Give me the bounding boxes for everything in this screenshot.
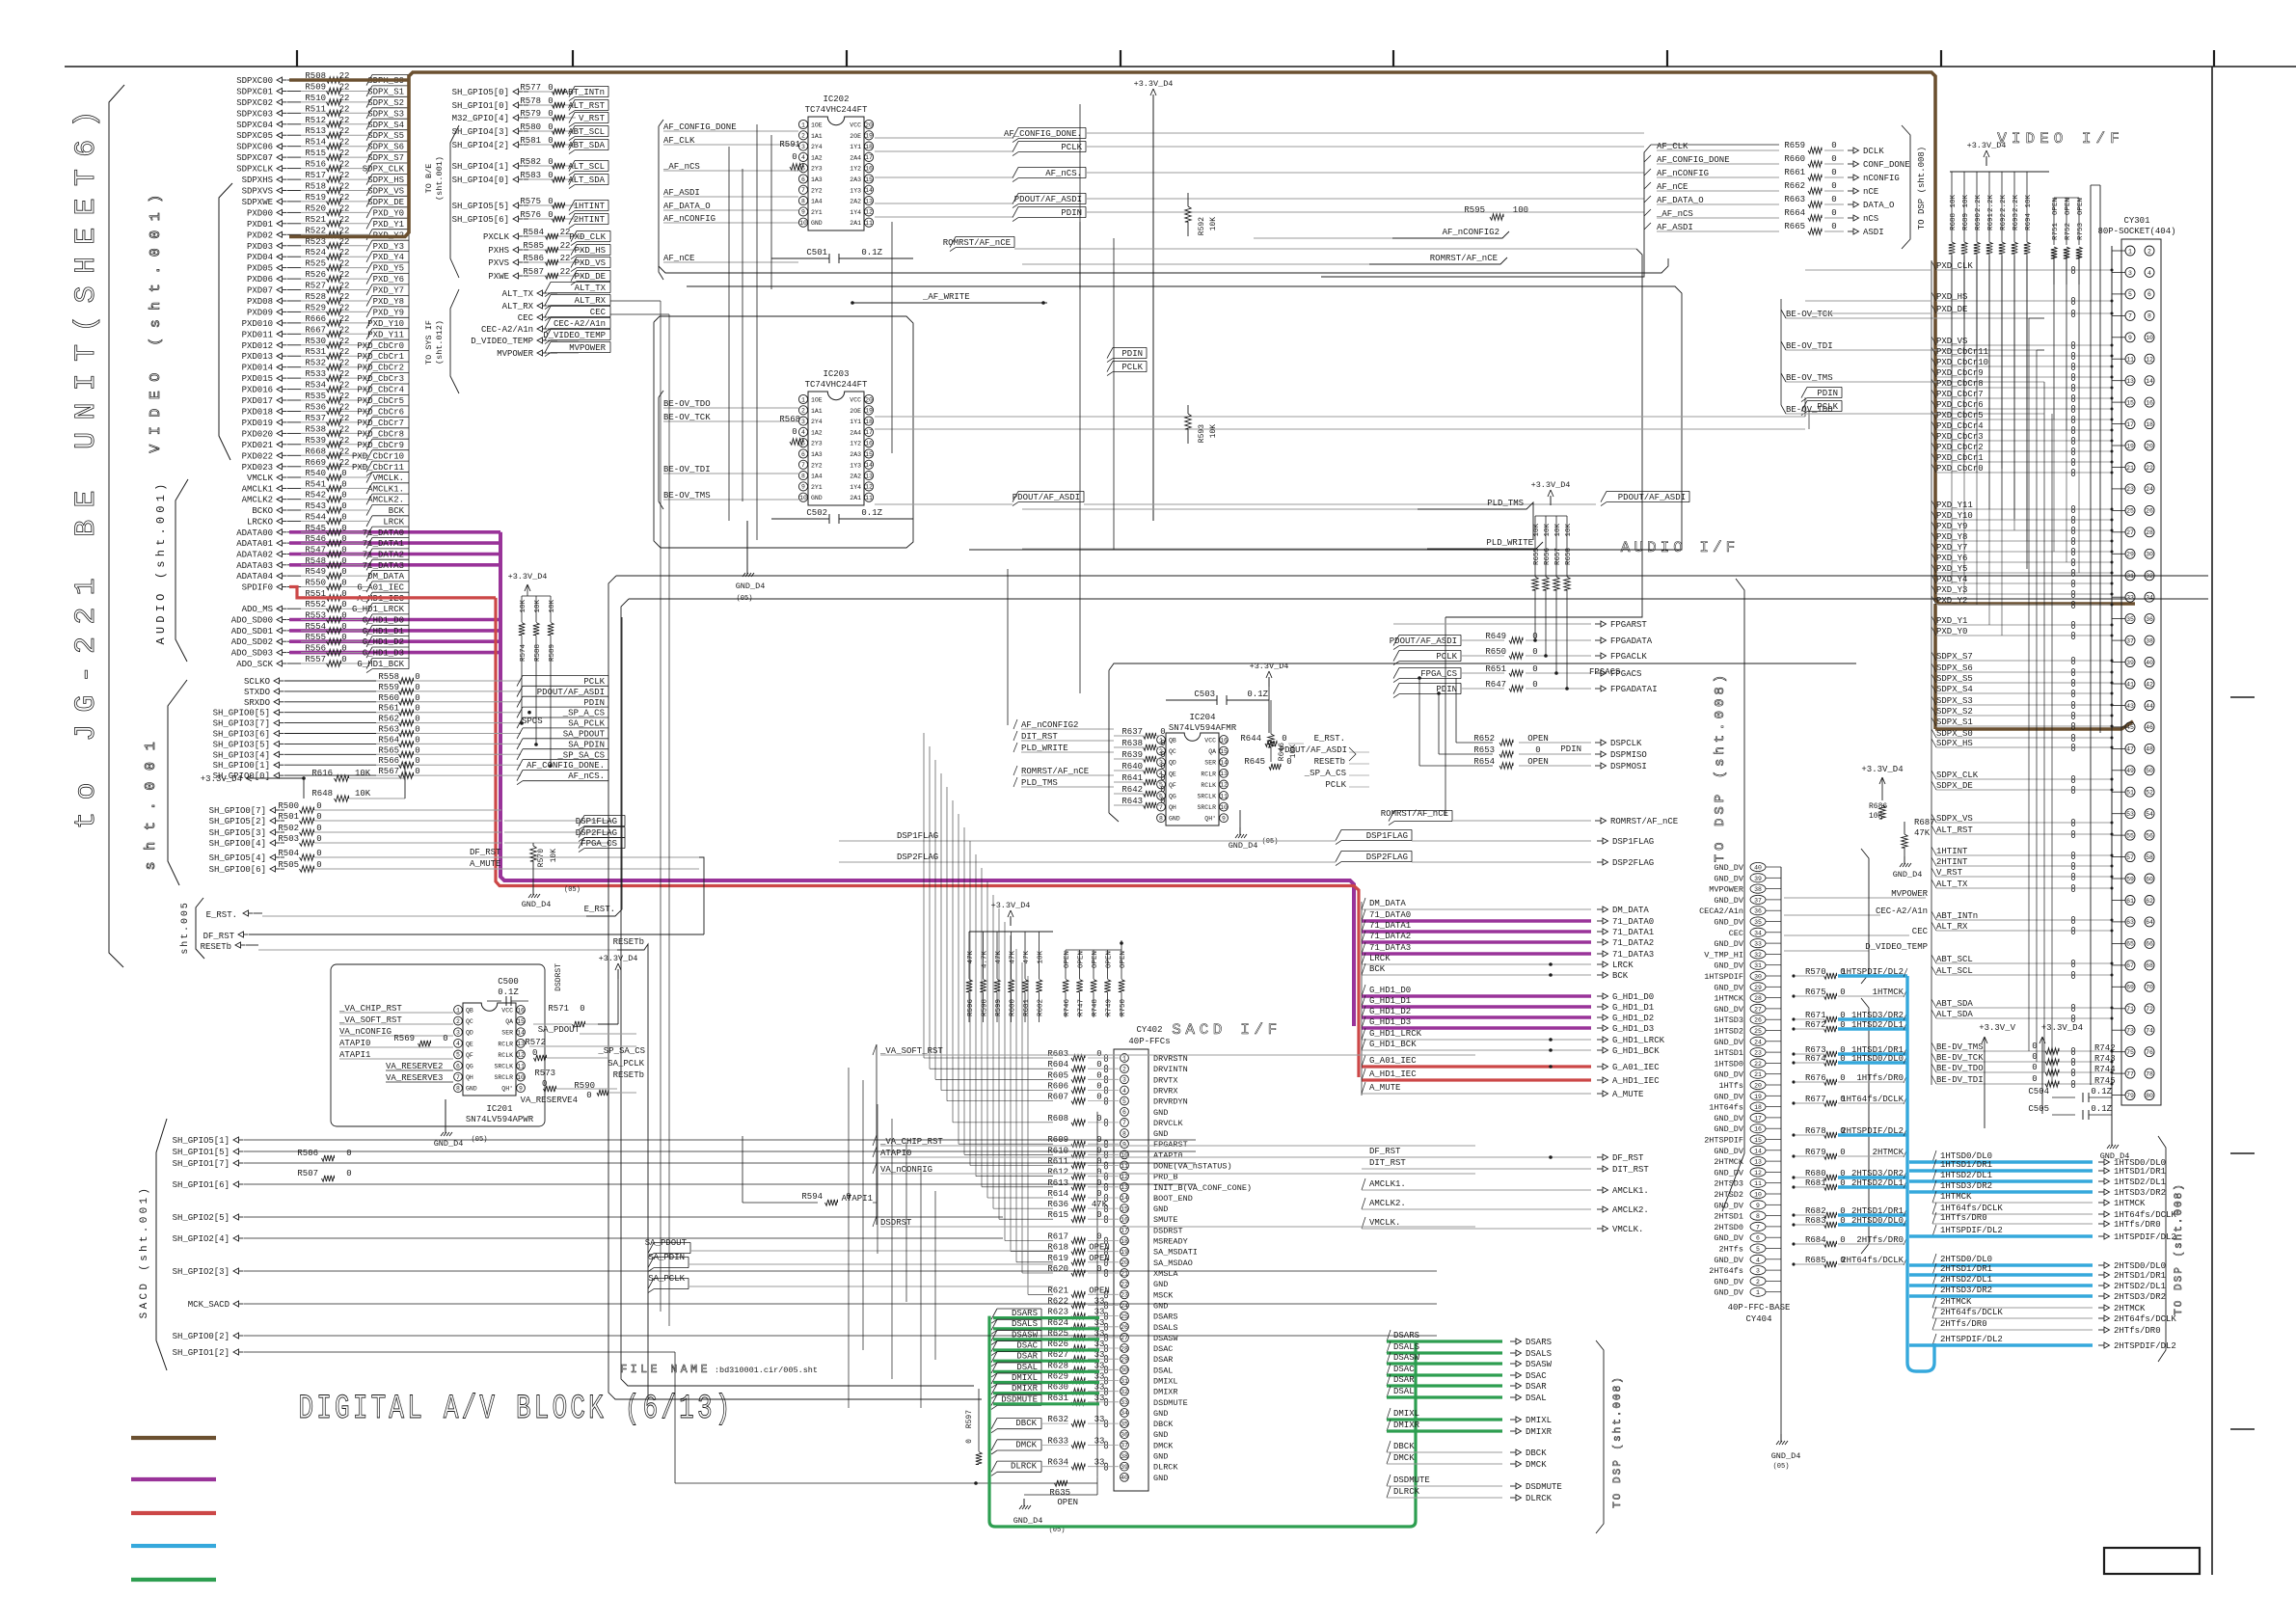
svg-text:PXD_Y8: PXD_Y8 — [373, 297, 404, 307]
svg-text:ALT_SDA: ALT_SDA — [568, 176, 605, 185]
svg-text:R614: R614 — [1047, 1189, 1068, 1199]
svg-text:TC74VHC244FT: TC74VHC244FT — [805, 105, 868, 115]
svg-text:M32_GPIO[4]: M32_GPIO[4] — [452, 114, 509, 123]
svg-text:R505: R505 — [278, 860, 299, 870]
svg-text:0: 0 — [1096, 1093, 1101, 1102]
svg-text:GND_DV: GND_DV — [1714, 1168, 1744, 1177]
svg-text:GND_D4: GND_D4 — [522, 900, 552, 909]
svg-text:52: 52 — [2146, 790, 2153, 797]
svg-text:SACD I/F: SACD I/F — [1172, 1021, 1282, 1039]
svg-text:74: 74 — [2146, 1028, 2153, 1035]
svg-text:38: 38 — [2146, 637, 2153, 644]
svg-text:GND_DV: GND_DV — [1714, 1233, 1744, 1243]
svg-text:R693: R693 — [2012, 213, 2020, 231]
svg-text:13: 13 — [865, 473, 873, 479]
svg-text:SDPXC02: SDPXC02 — [236, 98, 273, 108]
svg-text:PXD_Y11: PXD_Y11 — [367, 330, 404, 339]
svg-text:0: 0 — [548, 197, 553, 206]
svg-text:PXD021: PXD021 — [242, 441, 273, 450]
svg-text:33: 33 — [1094, 1394, 1105, 1403]
svg-text:GND_D4: GND_D4 — [1229, 841, 1258, 851]
svg-text:R639: R639 — [1121, 750, 1143, 760]
svg-text:G_HD1_D1: G_HD1_D1 — [1369, 996, 1411, 1006]
svg-text:SH_GPIO0[5]: SH_GPIO0[5] — [213, 709, 270, 718]
svg-text:OPEN: OPEN — [1092, 951, 1099, 968]
svg-text:R573: R573 — [534, 1069, 555, 1078]
svg-text:SH_GPIO2[3]: SH_GPIO2[3] — [173, 1267, 230, 1277]
svg-text:PXD015: PXD015 — [242, 374, 273, 384]
svg-text:31: 31 — [2126, 573, 2134, 580]
svg-text:R530: R530 — [305, 337, 326, 346]
svg-text:22: 22 — [339, 193, 350, 203]
svg-text:0: 0 — [415, 704, 419, 714]
svg-text:R545: R545 — [305, 524, 326, 533]
svg-text:R554: R554 — [305, 622, 326, 632]
svg-text:10K: 10K — [550, 849, 558, 863]
svg-text:R525: R525 — [305, 259, 326, 269]
svg-text:PXD03: PXD03 — [247, 242, 273, 252]
svg-text:6: 6 — [801, 176, 805, 183]
svg-text:19: 19 — [865, 133, 873, 140]
svg-text:38: 38 — [1754, 886, 1762, 893]
svg-text:PXD_Y6: PXD_Y6 — [373, 275, 404, 284]
svg-text:R612: R612 — [1047, 1168, 1068, 1177]
svg-text:22: 22 — [339, 347, 350, 357]
svg-text:71_DATA1: 71_DATA1 — [1369, 921, 1411, 931]
svg-text:4: 4 — [1122, 1088, 1126, 1095]
svg-text:ADO_SD01: ADO_SD01 — [231, 627, 273, 636]
svg-text:AUDIO I/F: AUDIO I/F — [1621, 539, 1739, 556]
svg-text:PDIN: PDIN — [1121, 349, 1143, 359]
svg-text:36: 36 — [2146, 616, 2153, 623]
svg-text:2A1: 2A1 — [850, 220, 861, 227]
svg-text:QD: QD — [1169, 760, 1176, 767]
svg-text:R582: R582 — [520, 157, 541, 167]
svg-text:22: 22 — [339, 237, 350, 247]
svg-text:11: 11 — [1754, 1180, 1762, 1187]
svg-text:PXD_HS: PXD_HS — [575, 246, 606, 256]
svg-text:22: 22 — [339, 359, 350, 368]
svg-text:1HTMCK: 1HTMCK — [2114, 1199, 2146, 1208]
svg-text:0: 0 — [2032, 1052, 2037, 1062]
svg-text:DLRCK: DLRCK — [1011, 1462, 1038, 1472]
svg-text:R648: R648 — [311, 789, 333, 798]
svg-text:DF_RST: DF_RST — [1369, 1147, 1401, 1156]
svg-text:12: 12 — [2146, 357, 2153, 364]
svg-text:22: 22 — [560, 267, 571, 277]
svg-text:ADO_SD00: ADO_SD00 — [231, 616, 273, 626]
svg-text:PDIN: PDIN — [1560, 744, 1581, 754]
svg-text:R602: R602 — [1038, 999, 1045, 1016]
svg-text:SDPX_S3: SDPX_S3 — [367, 109, 404, 119]
svg-text:44: 44 — [2146, 703, 2153, 710]
svg-text:22: 22 — [339, 424, 350, 434]
svg-text:72: 72 — [2146, 1006, 2153, 1013]
svg-text:SER: SER — [501, 1030, 513, 1037]
svg-text:71_DATA0: 71_DATA0 — [1369, 910, 1411, 920]
svg-text:1HTSD3: 1HTSD3 — [1714, 1015, 1743, 1025]
svg-text:29: 29 — [1754, 985, 1762, 991]
svg-text:8: 8 — [1122, 1130, 1126, 1137]
svg-text:SH_GPIO4[1]: SH_GPIO4[1] — [452, 162, 509, 172]
svg-text:0: 0 — [415, 715, 419, 724]
svg-text:DMIXR: DMIXR — [1393, 1421, 1420, 1430]
svg-text:MVPOWER: MVPOWER — [497, 349, 533, 359]
svg-text::bd310001.cir/005.sht: :bd310001.cir/005.sht — [715, 1366, 818, 1375]
svg-text:SA_PDOUT: SA_PDOUT — [538, 1025, 581, 1035]
svg-text:0: 0 — [346, 1149, 351, 1158]
svg-text:GND_DV: GND_DV — [1714, 1070, 1744, 1080]
svg-text:DSAC: DSAC — [1393, 1365, 1415, 1374]
svg-text:OPEN: OPEN — [1057, 1498, 1078, 1507]
svg-text:16: 16 — [517, 1007, 525, 1014]
svg-text:R653: R653 — [1473, 745, 1495, 755]
svg-text:R501: R501 — [278, 812, 299, 822]
svg-text:6: 6 — [456, 1063, 460, 1069]
svg-text:0.1Z: 0.1Z — [861, 248, 882, 257]
svg-text:G_HD1_D0: G_HD1_D0 — [1612, 992, 1654, 1002]
svg-text:AF_nCS.: AF_nCS. — [1045, 169, 1082, 178]
svg-text:DSARS: DSARS — [1153, 1313, 1178, 1322]
svg-text:SH_GPIO5[0]: SH_GPIO5[0] — [452, 88, 509, 97]
svg-text:sht.001: sht.001 — [143, 731, 159, 871]
svg-text:PXD020: PXD020 — [242, 429, 273, 439]
svg-text:DSP2FLAG: DSP2FLAG — [897, 853, 938, 862]
svg-text:R597: R597 — [965, 1410, 974, 1428]
svg-text:10K: 10K — [1038, 951, 1045, 964]
svg-text:2HTSPDIF: 2HTSPDIF — [1704, 1136, 1743, 1146]
svg-text:ADO_SD02: ADO_SD02 — [231, 637, 273, 647]
svg-text:nCONFIG: nCONFIG — [1863, 174, 1900, 183]
svg-text:0: 0 — [341, 644, 346, 654]
svg-text:GND: GND — [1153, 1108, 1168, 1118]
svg-text:2A4: 2A4 — [850, 154, 861, 161]
svg-text:D_VIDEO_TEMP: D_VIDEO_TEMP — [543, 331, 606, 340]
svg-text:PXD02: PXD02 — [247, 230, 273, 240]
svg-text:3: 3 — [1756, 1268, 1760, 1275]
svg-text:R567: R567 — [378, 767, 399, 776]
svg-text:2Y2: 2Y2 — [811, 187, 823, 194]
svg-text:2HT64fs/DCLK: 2HT64fs/DCLK — [1940, 1308, 2003, 1317]
svg-text:R543: R543 — [305, 501, 326, 511]
svg-text:75: 75 — [2126, 1049, 2134, 1056]
svg-text:0: 0 — [415, 725, 419, 735]
svg-text:R578: R578 — [520, 96, 541, 106]
svg-text:ABT_SDA: ABT_SDA — [568, 141, 605, 150]
svg-text:DRVCLK: DRVCLK — [1153, 1119, 1184, 1128]
svg-text:0: 0 — [341, 512, 346, 522]
svg-text:0.1Z: 0.1Z — [861, 508, 882, 518]
svg-text:17: 17 — [1754, 1115, 1762, 1122]
svg-text:0: 0 — [341, 469, 346, 478]
svg-text:R576: R576 — [520, 210, 541, 220]
svg-text:2A2: 2A2 — [850, 474, 861, 480]
svg-text:FPGADATA: FPGADATA — [1610, 636, 1653, 646]
svg-text:22: 22 — [339, 392, 350, 401]
svg-text:VMCLK.: VMCLK. — [373, 474, 404, 483]
svg-text:22: 22 — [339, 314, 350, 324]
svg-text:14: 14 — [865, 462, 873, 469]
svg-text:R604: R604 — [1047, 1060, 1068, 1069]
svg-text:R579: R579 — [520, 109, 541, 119]
svg-text:CEC: CEC — [1729, 929, 1743, 938]
svg-text:1HTINT: 1HTINT — [574, 202, 606, 211]
svg-text:V_RST: V_RST — [579, 114, 606, 123]
svg-text:R532: R532 — [305, 359, 326, 368]
svg-text:R689: R689 — [1962, 213, 1970, 230]
svg-text:ALT_RX: ALT_RX — [575, 296, 607, 306]
svg-text:22: 22 — [339, 203, 350, 213]
svg-text:R745: R745 — [2094, 1076, 2116, 1086]
svg-text:R571: R571 — [548, 1004, 569, 1014]
svg-text:GND: GND — [1153, 1474, 1168, 1483]
svg-text:R621: R621 — [1047, 1286, 1068, 1295]
svg-text:QD: QD — [466, 1030, 473, 1037]
svg-text:G_HD1_BCK: G_HD1_BCK — [357, 660, 404, 669]
svg-text:PXD_CbCr5: PXD_CbCr5 — [357, 396, 404, 406]
svg-text:R502: R502 — [278, 824, 299, 833]
svg-text:22: 22 — [339, 403, 350, 413]
svg-text:C500: C500 — [498, 977, 519, 987]
svg-text:SN74LV594AFMR: SN74LV594AFMR — [1169, 723, 1237, 733]
svg-text:22: 22 — [339, 458, 350, 468]
svg-text:3: 3 — [801, 419, 805, 425]
svg-text:8: 8 — [801, 198, 805, 204]
svg-text:11: 11 — [865, 495, 873, 501]
svg-text:_SP_A_CS: _SP_A_CS — [562, 709, 605, 718]
svg-text:ADATA02: ADATA02 — [236, 551, 273, 560]
svg-text:DSDRST: DSDRST — [880, 1218, 912, 1228]
svg-text:0: 0 — [1160, 750, 1165, 760]
svg-text:R500: R500 — [278, 801, 299, 811]
svg-text:R651: R651 — [1485, 664, 1506, 674]
svg-text:22: 22 — [339, 303, 350, 312]
svg-text:PXD016: PXD016 — [242, 386, 273, 395]
svg-text:0: 0 — [415, 767, 419, 776]
svg-text:R535: R535 — [305, 392, 326, 401]
svg-text:OPEN: OPEN — [2077, 198, 2085, 215]
svg-text:0: 0 — [341, 611, 346, 621]
svg-text:XMSLA: XMSLA — [1153, 1269, 1178, 1279]
svg-text:OPEN: OPEN — [2065, 198, 2072, 215]
svg-text:SH_GPIO3[7]: SH_GPIO3[7] — [213, 719, 270, 729]
svg-text:R590: R590 — [574, 1081, 595, 1091]
svg-text:33: 33 — [1094, 1383, 1105, 1393]
svg-text:GND_D4: GND_D4 — [434, 1139, 464, 1149]
svg-text:ALT_RX: ALT_RX — [502, 302, 534, 311]
svg-text:7: 7 — [2128, 313, 2132, 320]
svg-text:0: 0 — [548, 109, 553, 119]
svg-text:QB: QB — [466, 1008, 473, 1015]
svg-text:0: 0 — [341, 622, 346, 632]
svg-text:PDOUT/AF_ASDI: PDOUT/AF_ASDI — [537, 688, 605, 697]
svg-text:13: 13 — [2126, 378, 2134, 385]
svg-text:SA_PDIN: SA_PDIN — [568, 740, 605, 749]
svg-text:PXD023: PXD023 — [242, 463, 273, 473]
svg-text:SH_GPIO5[1]: SH_GPIO5[1] — [173, 1136, 230, 1146]
svg-text:10K: 10K — [355, 789, 371, 798]
svg-text:22: 22 — [339, 94, 350, 103]
svg-text:FPGARST: FPGARST — [1153, 1140, 1188, 1150]
svg-text:G_HD1_D3: G_HD1_D3 — [1612, 1024, 1654, 1034]
svg-text:11: 11 — [1121, 1163, 1128, 1170]
svg-text:R584: R584 — [523, 228, 544, 237]
svg-text:40: 40 — [1754, 865, 1762, 872]
svg-text:FPGACS: FPGACS — [1589, 667, 1620, 677]
svg-text:SDPXC07: SDPXC07 — [236, 153, 273, 163]
svg-text:7: 7 — [801, 462, 805, 469]
svg-text:DSALS: DSALS — [1153, 1323, 1178, 1333]
svg-text:A_MUTE: A_MUTE — [470, 859, 500, 869]
svg-text:2Y4: 2Y4 — [811, 419, 823, 425]
svg-text:PXD_Y0: PXD_Y0 — [373, 208, 404, 218]
svg-text:5: 5 — [2128, 291, 2132, 298]
svg-text:20: 20 — [2146, 443, 2153, 449]
svg-text:79: 79 — [2126, 1093, 2134, 1099]
svg-text:2HTSD1/DR1: 2HTSD1/DR1 — [1940, 1264, 1992, 1274]
svg-text:SH_GPIO2[4]: SH_GPIO2[4] — [173, 1234, 230, 1244]
svg-text:1HTSPDIF: 1HTSPDIF — [1704, 972, 1743, 982]
svg-text:10K: 10K — [2025, 195, 2033, 208]
svg-text:+3.3V_D4: +3.3V_D4 — [599, 954, 638, 963]
svg-text:0: 0 — [415, 735, 419, 744]
svg-text:SH_GPIO2[5]: SH_GPIO2[5] — [173, 1213, 230, 1223]
svg-text:DSPCLK: DSPCLK — [1610, 739, 1642, 748]
svg-text:2HTSD1/DR1: 2HTSD1/DR1 — [2114, 1271, 2166, 1281]
svg-text:DIT_RST: DIT_RST — [1369, 1158, 1406, 1168]
svg-text:22: 22 — [339, 116, 350, 125]
svg-text:SH_GPIO4[0]: SH_GPIO4[0] — [452, 176, 509, 185]
svg-text:_AF_WRITE: _AF_WRITE — [922, 292, 970, 302]
svg-text:ADATA00: ADATA00 — [236, 528, 273, 538]
svg-text:1Y2: 1Y2 — [850, 166, 861, 173]
svg-text:DSPMOSI: DSPMOSI — [1610, 762, 1647, 771]
svg-text:10K: 10K — [1869, 812, 1883, 821]
svg-text:PXD_Y10: PXD_Y10 — [367, 319, 404, 329]
svg-text:2HTfs/DR0: 2HTfs/DR0 — [2114, 1326, 2161, 1336]
svg-text:0: 0 — [1160, 727, 1165, 737]
svg-text:GND_D4: GND_D4 — [736, 582, 766, 591]
svg-text:33: 33 — [1094, 1415, 1105, 1424]
svg-text:R512: R512 — [305, 116, 326, 125]
svg-text:R665: R665 — [1784, 222, 1805, 231]
svg-text:0: 0 — [548, 83, 553, 93]
svg-text:71_DATA1: 71_DATA1 — [1612, 928, 1654, 937]
svg-text:SER: SER — [1204, 760, 1216, 767]
svg-text:DSASW: DSASW — [1393, 1353, 1420, 1363]
svg-text:16: 16 — [2146, 399, 2153, 406]
svg-text:PXD00: PXD00 — [247, 208, 273, 218]
svg-text:24: 24 — [1754, 1039, 1762, 1045]
svg-text:2: 2 — [1756, 1279, 1760, 1286]
svg-text:22: 22 — [339, 369, 350, 379]
svg-text:8: 8 — [456, 1086, 460, 1093]
svg-text:SDPXC00: SDPXC00 — [236, 76, 273, 86]
svg-text:R649: R649 — [1485, 632, 1506, 641]
svg-text:DSAL: DSAL — [1393, 1387, 1415, 1396]
svg-text:QE: QE — [466, 1041, 473, 1047]
svg-text:+3.3V_D4: +3.3V_D4 — [2041, 1023, 2083, 1033]
svg-text:18: 18 — [2146, 421, 2153, 428]
svg-text:2HTSD3: 2HTSD3 — [1714, 1179, 1743, 1189]
svg-text:DMCK: DMCK — [1526, 1460, 1547, 1470]
svg-text:OPEN: OPEN — [1064, 951, 1071, 968]
svg-text:14: 14 — [1220, 760, 1228, 767]
svg-text:0: 0 — [965, 1439, 974, 1444]
svg-text:QC: QC — [466, 1018, 473, 1025]
svg-text:BCKO: BCKO — [252, 506, 273, 516]
svg-text:E_RST.: E_RST. — [206, 910, 237, 920]
svg-text:0: 0 — [548, 157, 553, 167]
svg-text:PDOUT/AF_ASDI: PDOUT/AF_ASDI — [1618, 493, 1686, 502]
svg-text:40P-FFC-BASE: 40P-FFC-BASE — [1728, 1303, 1791, 1313]
svg-text:11: 11 — [865, 220, 873, 227]
svg-text:R598: R598 — [982, 999, 989, 1016]
svg-text:76: 76 — [2146, 1049, 2153, 1056]
svg-text:R747: R747 — [1078, 999, 1086, 1016]
svg-text:CY301: CY301 — [2123, 216, 2149, 226]
svg-text:R552: R552 — [305, 600, 326, 609]
svg-text:RESETb: RESETb — [613, 1070, 644, 1080]
svg-text:22: 22 — [1121, 1282, 1128, 1288]
svg-text:1A3: 1A3 — [811, 451, 823, 458]
svg-text:R596: R596 — [967, 999, 975, 1017]
svg-text:R601: R601 — [1023, 999, 1031, 1017]
svg-text:4.7K: 4.7K — [982, 951, 989, 969]
svg-text:2HTSD0/DL0: 2HTSD0/DL0 — [1940, 1255, 1992, 1264]
svg-text:R744: R744 — [2094, 1065, 2116, 1074]
svg-text:R617: R617 — [1047, 1232, 1068, 1242]
svg-text:_VA_SOFT_RST: _VA_SOFT_RST — [879, 1046, 943, 1056]
svg-text:R607: R607 — [1047, 1093, 1068, 1102]
svg-text:TO B/E: TO B/E — [424, 164, 434, 194]
svg-text:GND_DV: GND_DV — [1714, 1092, 1744, 1101]
svg-text:PXCLK: PXCLK — [483, 232, 510, 242]
svg-text:G_HD1_LRCK: G_HD1_LRCK — [352, 605, 405, 614]
svg-text:R746: R746 — [1064, 999, 1071, 1017]
svg-text:R636: R636 — [1047, 1200, 1068, 1209]
svg-text:1Y3: 1Y3 — [850, 462, 861, 469]
svg-text:C501: C501 — [806, 248, 827, 257]
svg-text:PXD_CbCr1: PXD_CbCr1 — [357, 352, 404, 362]
svg-text:R555: R555 — [305, 633, 326, 642]
svg-text:22: 22 — [560, 254, 571, 263]
svg-text:PLD_TMS: PLD_TMS — [1487, 499, 1524, 508]
svg-text:SDPX_S2: SDPX_S2 — [367, 98, 404, 108]
svg-text:R600: R600 — [1010, 999, 1017, 1017]
svg-text:1Y1: 1Y1 — [850, 144, 861, 150]
svg-text:GND_DV: GND_DV — [1714, 939, 1744, 949]
svg-text:AF_CONFIG_DONE.: AF_CONFIG_DONE. — [527, 761, 605, 771]
svg-text:GND_DV: GND_DV — [1714, 918, 1744, 928]
svg-text:ADATA04: ADATA04 — [236, 572, 273, 582]
svg-text:2HTSD2/DL1: 2HTSD2/DL1 — [1940, 1275, 1992, 1285]
svg-text:16: 16 — [865, 166, 873, 173]
svg-text:3: 3 — [2128, 270, 2132, 277]
svg-text:1HTSD2/DL1: 1HTSD2/DL1 — [2114, 1177, 2166, 1187]
svg-text:R655: R655 — [1533, 548, 1541, 566]
svg-text:35: 35 — [2126, 616, 2134, 623]
svg-text:23: 23 — [2126, 486, 2134, 493]
svg-text:FPGA_CS: FPGA_CS — [581, 839, 617, 849]
svg-text:GND_DV: GND_DV — [1714, 983, 1744, 992]
svg-text:4: 4 — [2147, 270, 2151, 277]
svg-text:32: 32 — [1754, 952, 1762, 959]
svg-text:RCLR: RCLR — [498, 1041, 513, 1047]
svg-text:56: 56 — [2146, 832, 2153, 839]
svg-text:PXD_CbCr8: PXD_CbCr8 — [357, 429, 404, 439]
svg-text:QG: QG — [1169, 794, 1176, 800]
